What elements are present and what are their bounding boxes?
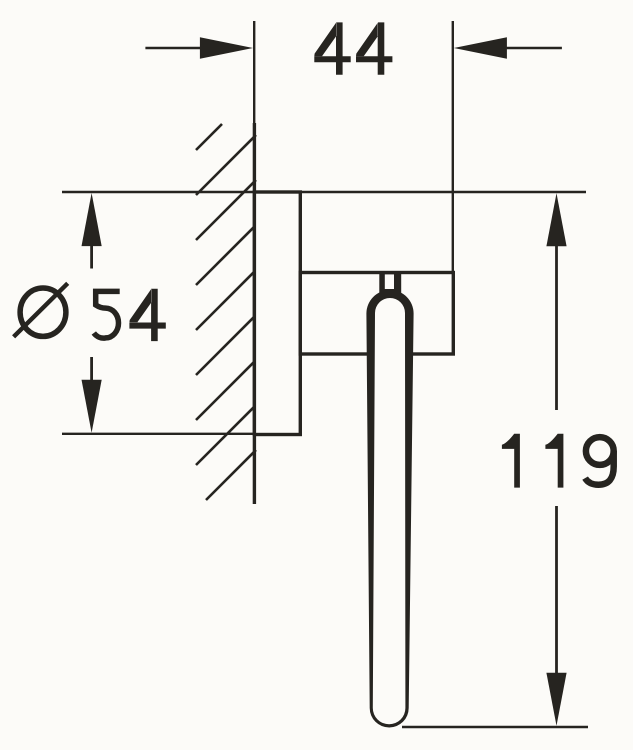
pivot pin slot bbox=[385, 274, 394, 289]
extension line 44-left (wall face, vertical) bbox=[253, 21, 255, 124]
wall plate (rosette, side view) bbox=[254, 192, 300, 435]
extension line top (upper reference, y=192) bbox=[62, 191, 586, 193]
hanging ring inner cutout bbox=[373, 298, 406, 724]
extension line bottom-left (lower edge of plate, y=433.5) bbox=[62, 433, 302, 435]
dimension 119: up arrow bbox=[555, 244, 558, 410]
label 119: digit 9 bowl bbox=[586, 437, 614, 465]
label 119: digit 1 (second) bbox=[545, 434, 563, 488]
label Ø54: diameter symbol ellipse bbox=[20, 288, 66, 336]
label Ø54: diameter symbol slash bbox=[14, 283, 68, 337]
label 44: first digit 4 bbox=[314, 22, 350, 74]
dimension Ø54: up arrow bbox=[90, 244, 93, 269]
extension line 44-right (arm end, vertical) bbox=[452, 21, 454, 272]
pivot pin / ring neck bbox=[379, 271, 401, 296]
label Ø54: digit 4 bbox=[129, 289, 165, 341]
dimension 44: right arrow bbox=[502, 47, 562, 49]
hatching (wall section lines) bbox=[196, 124, 256, 500]
label 119: digit 1 (first) bbox=[502, 434, 520, 488]
extension line bottom-right (ring bottom, y=727) bbox=[402, 726, 588, 728]
dimension 119: down arrow bbox=[555, 506, 558, 675]
wall face line bbox=[253, 123, 256, 504]
hanging ring outer outline bbox=[366, 290, 413, 728]
label 44: second digit 4 bbox=[356, 22, 392, 74]
holder arm (body, side view) bbox=[300, 273, 453, 355]
label 119: digit 9 tail bbox=[585, 451, 614, 485]
label Ø54: digit 5 bbox=[94, 291, 120, 338]
dimension Ø54: down arrow bbox=[90, 357, 93, 382]
dimension 44: left arrow bbox=[82, 37, 567, 726]
